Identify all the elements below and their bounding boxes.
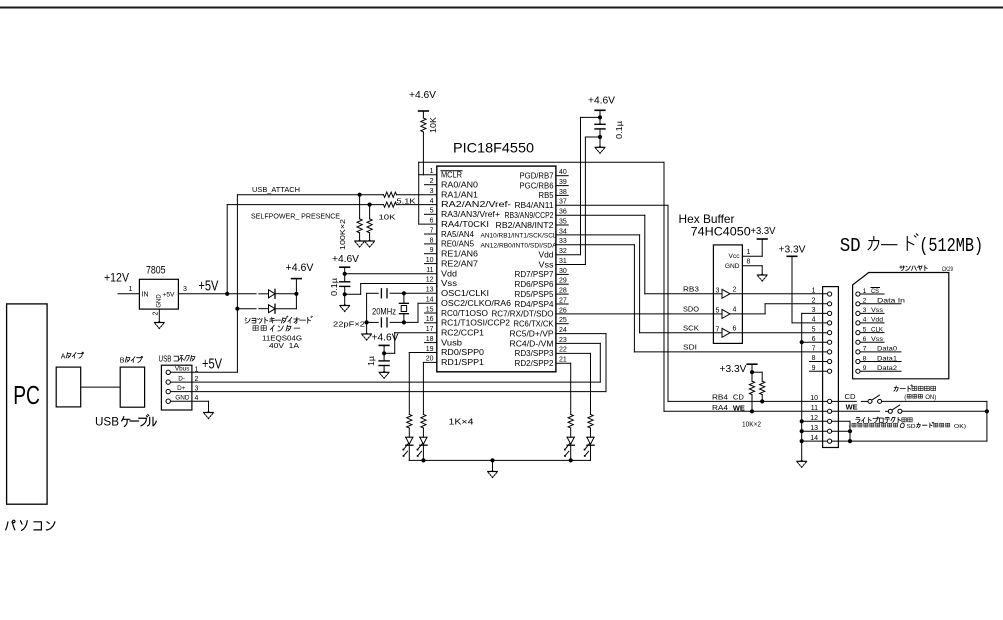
svg-text:(: ( (904, 395, 906, 401)
junction pin12 Vss (343, 292, 347, 296)
switch SW1 card detect (868, 399, 872, 403)
svg-text:OSC2/CLKO/RA6: OSC2/CLKO/RA6 (441, 299, 511, 308)
svg-text:33: 33 (559, 238, 567, 245)
svg-text:11EQS04G: 11EQS04G (262, 336, 302, 343)
wire buffer out SDO to SD pin2 (730, 313, 765, 315)
wire PIC pin6 stub (419, 223, 437, 225)
svg-text:RC2/CCP1: RC2/CCP1 (441, 329, 484, 338)
wire buffer out RB3 to SD pin1 (730, 293, 828, 295)
wire net D+ to PIC pin24 (192, 391, 606, 393)
wire +4.6V stem top right (599, 110, 601, 117)
wire USB cable (81, 386, 121, 388)
label schottky diode (katakana) (245, 318, 250, 323)
wire SELFPOWER vertical to +5V rail (226, 205, 228, 294)
svg-text:Vdd: Vdd (539, 250, 554, 259)
svg-text:RD4/PSP4: RD4/PSP4 (515, 300, 555, 309)
svg-text:+3.3V: +3.3V (779, 244, 806, 256)
junction +5V rail (225, 292, 229, 296)
label nihon inter (katakana) (253, 326, 258, 331)
junction VBUS at diode D2 (235, 307, 239, 311)
svg-text:5.1K: 5.1K (397, 197, 416, 206)
svg-text:100K×2: 100K×2 (338, 219, 347, 250)
junction 22pF ground corner (365, 320, 369, 324)
svg-text:AN12/RB0/INT0/SDI/SDA: AN12/RB0/INT0/SDI/SDA (481, 243, 558, 250)
wire +4.6V stem at 1u (383, 345, 385, 353)
svg-text:1K×4: 1K×4 (449, 417, 474, 427)
resistor 100K A (357, 219, 362, 233)
svg-text:15: 15 (426, 306, 434, 313)
ground 1u cap (382, 371, 386, 373)
svg-text:RC6/TX/CK: RC6/TX/CK (514, 320, 555, 329)
svg-text:1: 1 (747, 249, 751, 256)
svg-text:2: 2 (430, 178, 434, 185)
svg-text:RD6/PSP6: RD6/PSP6 (515, 280, 554, 289)
svg-text:D+: D+ (177, 385, 186, 392)
svg-text:SCK: SCK (683, 323, 699, 332)
wire +5V rail from 7805 pin3 (178, 293, 256, 295)
wire +4.6V stem (295, 279, 297, 294)
svg-text:10K: 10K (379, 213, 396, 222)
wire SD Vss rail pin6 (802, 341, 828, 343)
svg-text:SELFPOWER_ PRESENCE: SELFPOWER_ PRESENCE (251, 212, 340, 221)
svg-text:RC5/D+/VP: RC5/D+/VP (510, 329, 554, 338)
wire PIC pin21 to LED3 (556, 362, 571, 364)
wire MCLR net left vertical (418, 162, 420, 224)
junction C2 top (598, 115, 602, 119)
A-type USB plug box (56, 367, 80, 407)
svg-text:Vss: Vss (441, 279, 457, 288)
wire WE row to SD pin11 (664, 410, 828, 412)
svg-text:1: 1 (430, 168, 434, 175)
ground SD Vss rail (800, 460, 804, 462)
svg-text:0.1µ: 0.1µ (615, 121, 624, 139)
resistor 100K B (367, 219, 372, 233)
svg-text:AN10/RB1/INT1/SCK/SCL: AN10/RB1/INT1/SCK/SCL (481, 233, 558, 240)
svg-text:GND: GND (157, 294, 163, 308)
wire 7805 pin2 to ground (158, 309, 160, 322)
svg-text:34: 34 (559, 228, 567, 235)
schottky diode D1 (269, 290, 276, 298)
wire pullup RB4-CD (761, 372, 763, 381)
svg-text:28: 28 (559, 288, 567, 295)
svg-text:+5V: +5V (198, 279, 218, 295)
USB pin numbers (195, 366, 199, 402)
wire 1u cap stems (383, 353, 385, 361)
svg-text:MCLR: MCLR (441, 171, 462, 180)
wire USB pin3 D+ row (170, 391, 192, 393)
svg-text:CK29: CK29 (942, 266, 953, 273)
svg-text:3: 3 (430, 188, 434, 195)
power +4.6V at pin11 (340, 266, 350, 268)
MCLR overline (441, 170, 462, 172)
svg-text:RB4/AN11: RB4/AN11 (515, 201, 554, 210)
svg-text:SD: SD (907, 424, 916, 430)
PIC left pin stubs (425, 184, 437, 186)
wire SD pin12 row (802, 420, 828, 422)
svg-text:PGC/RB6: PGC/RB6 (520, 181, 554, 190)
svg-text:23: 23 (559, 337, 567, 344)
svg-text:RC7/RX/DT/SDO: RC7/RX/DT/SDO (492, 310, 554, 319)
wire PIC pin19 to LED1 (409, 352, 437, 354)
wire LED cathode rail (409, 459, 590, 461)
ground 7805 (158, 321, 162, 323)
svg-text:OSC1/CLKI: OSC1/CLKI (441, 289, 489, 298)
svg-text:1µ: 1µ (367, 356, 376, 366)
wire WE switch out (902, 410, 987, 412)
SD connector pin numbers (810, 288, 818, 442)
B-type USB plug box (120, 367, 144, 407)
svg-text:D-: D- (178, 375, 185, 382)
wire SD pin14 row (802, 440, 828, 442)
junction SELFPOWER pulldown (368, 203, 372, 207)
svg-text:7805: 7805 (146, 265, 166, 277)
power +4.6V MCLR pullup (419, 110, 429, 112)
svg-text:PGD/RB7: PGD/RB7 (520, 172, 554, 181)
svg-text:RB3/AN9/CCP2: RB3/AN9/CCP2 (505, 211, 554, 220)
schottky diode D2 (269, 305, 276, 313)
svg-text:+3.3V: +3.3V (720, 363, 747, 375)
power +4.6V at 1u cap (379, 344, 389, 346)
svg-text:9: 9 (430, 247, 434, 254)
wire PIC pin1 stub (419, 174, 437, 176)
wire USB pin4 GND row (170, 400, 192, 402)
svg-text:+4.6V: +4.6V (332, 253, 359, 265)
junction diode outputs (294, 292, 298, 296)
SD card outline (853, 273, 949, 379)
resistor 5.1K (384, 192, 397, 197)
wire WE switch lead (832, 410, 880, 412)
ground 100K A (358, 239, 362, 241)
wire OSC2 bottom row (367, 321, 379, 323)
junction CD pullup (760, 399, 764, 403)
svg-text:RC1/T1OSI/CCP2: RC1/T1OSI/CCP2 (441, 319, 510, 328)
junction C2 bottom (598, 135, 602, 139)
svg-text:+4.6V: +4.6V (409, 89, 436, 101)
ground C1 (343, 304, 347, 306)
wire PIC pin17 to 1u cap (395, 332, 437, 334)
PC box (7, 304, 48, 504)
wire SD Vss vertical rail (801, 313, 803, 461)
capacitor 22pF A (380, 289, 382, 298)
wire +3.3V pullup stem (751, 364, 753, 372)
svg-text:RA0/AN0: RA0/AN0 (441, 181, 479, 190)
svg-text:21: 21 (559, 357, 567, 364)
resistor 10K WE pullup (749, 381, 754, 394)
wire buffer Vcc pin1 (742, 255, 762, 257)
wire net RB3 from PIC pin36 (556, 214, 645, 216)
svg-text:RB2/AN8/INT2: RB2/AN8/INT2 (496, 221, 554, 230)
svg-text:2: 2 (863, 298, 867, 305)
wire +12V input to 7805 pin1 (118, 293, 139, 295)
resistor 10K (series) (384, 202, 397, 207)
resistor 1K #3 (568, 414, 573, 428)
wire 22pF left vertical (366, 293, 368, 322)
wire net USB_ATTACH to PIC pin3 (237, 194, 383, 196)
svg-text:5: 5 (863, 326, 867, 333)
svg-text:20MHz: 20MHz (372, 307, 396, 317)
svg-text:8: 8 (430, 237, 434, 244)
wire WE vertical from frame (663, 162, 665, 411)
wire SD Vss rail pin3 (802, 312, 828, 314)
USB connector J1 box (161, 365, 192, 410)
svg-text:13: 13 (426, 287, 434, 294)
svg-text:1: 1 (195, 366, 199, 373)
wire lower diode row from VBUS (237, 308, 256, 310)
svg-text:CLK: CLK (871, 326, 883, 333)
svg-text:Vss: Vss (871, 307, 884, 314)
wire PIC pin20 to LED2 (423, 361, 436, 363)
svg-text:9: 9 (863, 365, 867, 372)
capacitor 22pF B (380, 318, 382, 327)
wire 100K pulldown right (369, 205, 371, 219)
wire +4.6V to 10K pullup (422, 111, 424, 118)
svg-text:RD5/PSP5: RD5/PSP5 (515, 290, 555, 299)
svg-text:RD7/PSP7: RD7/PSP7 (515, 270, 554, 279)
wire 22pF ground stem (366, 322, 368, 334)
svg-text:0.1µ: 0.1µ (330, 278, 339, 296)
resistor 1K #1 (407, 414, 412, 428)
svg-text:+12V: +12V (104, 273, 129, 285)
svg-text:3: 3 (716, 287, 720, 294)
label pasokon (katakana) (6, 520, 15, 530)
svg-text:Data In: Data In (877, 298, 905, 305)
svg-text:CD: CD (733, 393, 744, 402)
wire buffer out SCK to SD pin5 (730, 332, 828, 334)
svg-text:RB4: RB4 (712, 393, 728, 402)
buffer gate pins 7-6 (713, 332, 722, 334)
buffer gate pins 5-4 (713, 313, 722, 315)
capacitor C1 0.1u (340, 281, 350, 283)
wire cap C2 stems (599, 117, 601, 124)
svg-text:RD1/SPP1: RD1/SPP1 (441, 358, 484, 367)
svg-text:SDO: SDO (683, 304, 699, 313)
svg-text:3: 3 (863, 307, 867, 314)
wire switch return rail (850, 440, 987, 442)
wire cap C1 to ground (344, 294, 346, 305)
svg-text:GND: GND (175, 395, 190, 402)
svg-text:40V 1A: 40V 1A (269, 343, 299, 350)
svg-text:RE0/AN5: RE0/AN5 (441, 240, 475, 249)
svg-text:CS: CS (871, 288, 879, 295)
buffer gate pins 3-2 (713, 293, 722, 295)
wire diode outputs join (295, 294, 297, 309)
svg-text:RE2/AN7: RE2/AN7 (441, 259, 478, 268)
svg-text:RA5/AN4: RA5/AN4 (441, 230, 475, 239)
svg-text:RD0/SPP0: RD0/SPP0 (441, 348, 485, 357)
labels USB pins (175, 366, 190, 402)
capacitor 1u (379, 360, 389, 362)
svg-text:ON): ON) (925, 395, 936, 401)
svg-text:+4.6V: +4.6V (372, 332, 399, 344)
svg-text:Vbus: Vbus (175, 366, 190, 373)
ground C2 (598, 146, 602, 148)
svg-text:32: 32 (559, 248, 567, 255)
wire net SELFPOWER_PRESENCE to PIC pin4 (227, 204, 383, 206)
svg-text:1: 1 (812, 288, 816, 295)
svg-text:11: 11 (811, 405, 818, 412)
svg-text:12: 12 (426, 277, 434, 284)
svg-text:40: 40 (559, 169, 567, 176)
svg-text:30: 30 (559, 268, 567, 275)
resistor 1K #4 (588, 414, 593, 428)
SD connector J2 box (823, 287, 839, 448)
svg-text:RE1/AN6: RE1/AN6 (441, 250, 478, 259)
wire CD switch out (882, 400, 987, 402)
wire PIC pin22 to LED4 (556, 352, 591, 354)
svg-text:Vcc: Vcc (729, 253, 741, 260)
svg-text:5: 5 (812, 326, 816, 333)
svg-text:4: 4 (733, 306, 737, 313)
junction pins 12 13 14 left (800, 419, 804, 423)
svg-text:29: 29 (559, 278, 567, 285)
wire MCLR net frame top (419, 161, 664, 163)
PIC pin numbers right (559, 169, 567, 364)
svg-text:Data0: Data0 (877, 346, 897, 353)
svg-text:7: 7 (430, 227, 434, 234)
svg-text:CD: CD (845, 392, 856, 401)
junction 1u cap (382, 351, 386, 355)
svg-text:+5V: +5V (163, 292, 176, 299)
svg-text:10K: 10K (429, 116, 438, 133)
wire SD pin8 stub (810, 361, 828, 363)
svg-text:20: 20 (426, 356, 434, 363)
svg-text:26: 26 (559, 307, 567, 314)
SD connector contacts (828, 292, 832, 443)
svg-text:24: 24 (559, 327, 567, 334)
svg-text:38: 38 (559, 189, 567, 196)
svg-text:10: 10 (810, 395, 818, 402)
svg-text:11: 11 (426, 267, 433, 274)
regulator 7805 box (139, 279, 178, 309)
resistor 10K pullup (421, 118, 426, 132)
svg-text:Vss: Vss (539, 260, 554, 269)
power +4.6V top right (595, 109, 605, 111)
LED D4 (420, 436, 427, 438)
wire 10K pullup to MCLR (422, 132, 424, 175)
svg-text:3: 3 (183, 286, 187, 293)
wire +3.3V to SD pin4 Vdd (791, 256, 793, 323)
junction pin11 Vdd (343, 272, 347, 276)
svg-text:5: 5 (430, 208, 434, 215)
hex buffer U2 74HC4050 box (713, 245, 742, 344)
crystal X1 20MHz (399, 302, 408, 304)
ground buffer (760, 273, 764, 275)
LED D3 (406, 436, 413, 438)
svg-text:7: 7 (716, 326, 720, 333)
svg-text:8: 8 (747, 259, 751, 266)
svg-text:Vusb: Vusb (441, 338, 463, 347)
wire rail to ground (492, 460, 494, 471)
svg-text:PC: PC (13, 380, 40, 410)
power +4.6V at diodes (292, 278, 302, 280)
LED D5 (567, 436, 574, 438)
wire OSC1 row (367, 292, 379, 294)
svg-text:4: 4 (812, 317, 816, 324)
svg-text:RB5: RB5 (539, 191, 555, 200)
svg-text:Vdd: Vdd (441, 269, 457, 278)
svg-text:USB: USB (159, 355, 172, 364)
ground 100K B (368, 239, 372, 241)
svg-text:4: 4 (863, 317, 867, 324)
svg-text:2: 2 (153, 311, 160, 315)
svg-text:RA3/AN3/Vref+: RA3/AN3/Vref+ (441, 210, 500, 219)
svg-text:B: B (120, 358, 125, 365)
svg-text:2: 2 (733, 286, 737, 293)
junction WE pullup (750, 409, 754, 413)
wire net SDO from PIC pin26 (556, 313, 714, 315)
svg-text:6: 6 (733, 325, 737, 332)
PIC pin numbers left (426, 168, 434, 363)
resistor 10K CD pullup (760, 381, 765, 394)
wire USB pin2 D- row (170, 381, 192, 383)
svg-text:+3.3V: +3.3V (751, 226, 776, 237)
PIC right pin stubs (556, 175, 568, 177)
wire right link 12-14 (849, 421, 851, 441)
svg-text:RD3/SPP3: RD3/SPP3 (515, 349, 554, 358)
svg-text:27: 27 (559, 297, 567, 304)
svg-text:SDI: SDI (683, 342, 697, 351)
svg-text:GND: GND (725, 263, 740, 270)
svg-text:10: 10 (426, 257, 434, 264)
svg-text:17: 17 (426, 326, 434, 333)
ground 22pF (365, 332, 369, 334)
label write protect detect (katakana) (902, 418, 907, 422)
svg-text:31: 31 (559, 258, 567, 265)
svg-text:35: 35 (559, 218, 567, 225)
wire net SDI from PIC pin33 (556, 244, 635, 246)
CS overline (871, 287, 880, 289)
svg-text:WE: WE (733, 404, 745, 413)
wire cap C1 bottom to Vss jog (344, 286, 346, 294)
svg-text:4: 4 (195, 395, 199, 402)
svg-text:25: 25 (559, 317, 567, 324)
svg-text:+5V: +5V (202, 357, 222, 373)
USB pin contacts (166, 370, 170, 374)
svg-text:SD: SD (840, 235, 861, 257)
svg-text:19: 19 (426, 346, 434, 353)
svg-text:36: 36 (559, 209, 567, 216)
junction USB_ATTACH pulldown (358, 193, 362, 197)
wire net D- to PIC pin23 (192, 381, 600, 383)
wire PIC pin32 Vdd to +4.6V (556, 254, 581, 256)
svg-text:8: 8 (863, 355, 867, 362)
svg-text:1: 1 (863, 288, 867, 295)
ground LED rail (491, 470, 495, 472)
power +3.3V SD (787, 255, 797, 257)
svg-text:A: A (61, 353, 66, 360)
svg-text:RD2/SPP2: RD2/SPP2 (515, 359, 554, 368)
svg-text:6: 6 (863, 336, 867, 343)
svg-text:5: 5 (716, 307, 720, 314)
wire 100K pulldown left (359, 195, 361, 219)
wire SD pin9 stub (810, 370, 828, 372)
power +3.3V pullups (747, 363, 757, 365)
LED D6 (587, 436, 594, 438)
junction Vss pin6 (800, 340, 804, 344)
svg-text:22pF×2: 22pF×2 (333, 320, 365, 329)
wire diode D1 output to +4.6V node (275, 293, 296, 295)
svg-text:7: 7 (863, 346, 867, 353)
PIC18F4550 U1 body (437, 166, 556, 372)
svg-text:10K×2: 10K×2 (742, 421, 761, 428)
wire net RB4-CD from PIC pin37 (556, 204, 668, 206)
wire net SCK from PIC pin34 (556, 234, 640, 236)
power +3.3V buffer (757, 238, 767, 240)
capacitor C2 0.1u (595, 123, 605, 125)
svg-text:2: 2 (812, 298, 816, 305)
svg-text:14: 14 (426, 297, 434, 304)
label sunhayato (katakana) (900, 266, 905, 271)
